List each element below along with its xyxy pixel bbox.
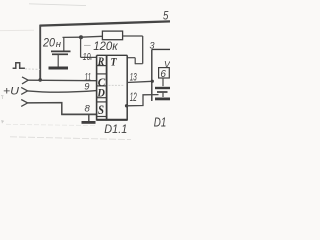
capacitor (right) top plate <box>155 87 170 89</box>
svg-text:10: 10 <box>83 51 91 63</box>
wire: node B down to pin10 <box>80 37 82 57</box>
svg-text:12: 12 <box>130 92 137 104</box>
wire: +5V top rail <box>40 21 170 25</box>
svg-text:D1.1: D1.1 <box>104 122 127 136</box>
input pulse symbol <box>13 63 25 68</box>
wire: jog left <box>135 63 143 65</box>
svg-text:13: 13 <box>130 71 137 83</box>
node A junction dot (left rail / pin11 wire) <box>38 78 42 82</box>
faint ruled artifact line middle-bottom <box>6 124 95 125</box>
faint lead-in dots from pulse <box>25 68 40 70</box>
pin box S bottom <box>97 116 107 118</box>
capacitor (right) bottom plate <box>157 91 168 93</box>
input chevron pin11 <box>22 77 28 84</box>
pin box D bottom <box>97 97 107 99</box>
margin pencil mark 1 <box>1 96 4 100</box>
pin box C top <box>97 73 107 75</box>
flip-flop D1.1 bottom edge <box>97 119 128 121</box>
wire: cap to node B <box>63 36 82 38</box>
D1.2 box top edge <box>152 48 170 50</box>
pin box 6 <box>159 68 170 78</box>
svg-text:R: R <box>97 56 105 68</box>
wire: down from resistor <box>142 36 144 64</box>
wire: pin 12 run right <box>127 95 159 106</box>
faint ruled artifact line bottom <box>10 137 131 140</box>
svg-text:20: 20 <box>42 37 55 49</box>
node C junction dot (pin13 / D1.2 edge) <box>151 80 154 83</box>
wire: pin 11 (C input) <box>28 79 96 82</box>
label 120k value <box>84 44 91 46</box>
node B junction dot (cap/R junction on pin10 net) <box>79 35 83 39</box>
flip-flop label column divider <box>106 55 108 120</box>
faint inner guide line <box>109 84 125 86</box>
svg-text:5: 5 <box>163 9 169 23</box>
ground bar (pin8) <box>82 121 96 124</box>
pin box C/D divider <box>97 85 107 87</box>
ground bar (right) <box>155 98 170 101</box>
wire: node B to resistor <box>81 35 102 38</box>
faint ruled artifact line top <box>29 4 86 6</box>
pin box S top <box>97 101 107 103</box>
capacitor 20n bottom plate <box>52 53 68 55</box>
resistor R 120k body <box>102 31 122 40</box>
wire: vertical down to pin13 net <box>134 58 136 64</box>
svg-text:D: D <box>96 88 105 100</box>
wire: resistor right <box>123 35 143 37</box>
svg-text:9: 9 <box>84 80 90 91</box>
ground stub under pin8 wire <box>88 114 90 121</box>
svg-text:+U: +U <box>3 85 19 97</box>
svg-text:3: 3 <box>150 40 155 50</box>
pin box R <box>97 65 107 67</box>
svg-text:S: S <box>98 103 104 117</box>
node D junction dot (pin12 at FF corner) <box>125 104 128 107</box>
D1.2 box left edge <box>151 49 153 101</box>
capacitor 20n bottom lead <box>57 54 59 66</box>
margin pencil mark 2 <box>1 120 4 123</box>
capacitor 20n top plate <box>51 50 71 52</box>
svg-text:н: н <box>56 39 62 50</box>
capacitor (right) bottom lead <box>162 93 164 97</box>
lead from pin6 box down <box>162 78 164 86</box>
wire: stub from FF top right <box>127 57 135 59</box>
svg-text:8: 8 <box>85 104 91 115</box>
svg-text:T: T <box>111 55 118 69</box>
wire: pin 8 (S input) stepped <box>28 103 97 115</box>
capacitor C (20n) top lead <box>63 37 65 50</box>
input chevron pin8 <box>21 100 27 107</box>
input chevron pin9 <box>21 87 27 94</box>
wire: left rail down to C-input node <box>39 25 41 80</box>
flip-flop D1.1 right edge <box>126 55 128 120</box>
ground bar (cap 20n) <box>49 67 69 70</box>
wire: pin 10 (R input) <box>81 56 97 58</box>
svg-text:120к: 120к <box>93 39 119 53</box>
wire: pin 13 output <box>127 81 152 82</box>
flip-flop D1.1 left edge <box>96 55 98 120</box>
wire: pin 9 (D input) <box>28 91 97 93</box>
faint ruled artifact line left margin <box>0 29 34 31</box>
flip-flop D1.1 top edge <box>97 54 128 56</box>
svg-text:D1: D1 <box>154 115 167 129</box>
